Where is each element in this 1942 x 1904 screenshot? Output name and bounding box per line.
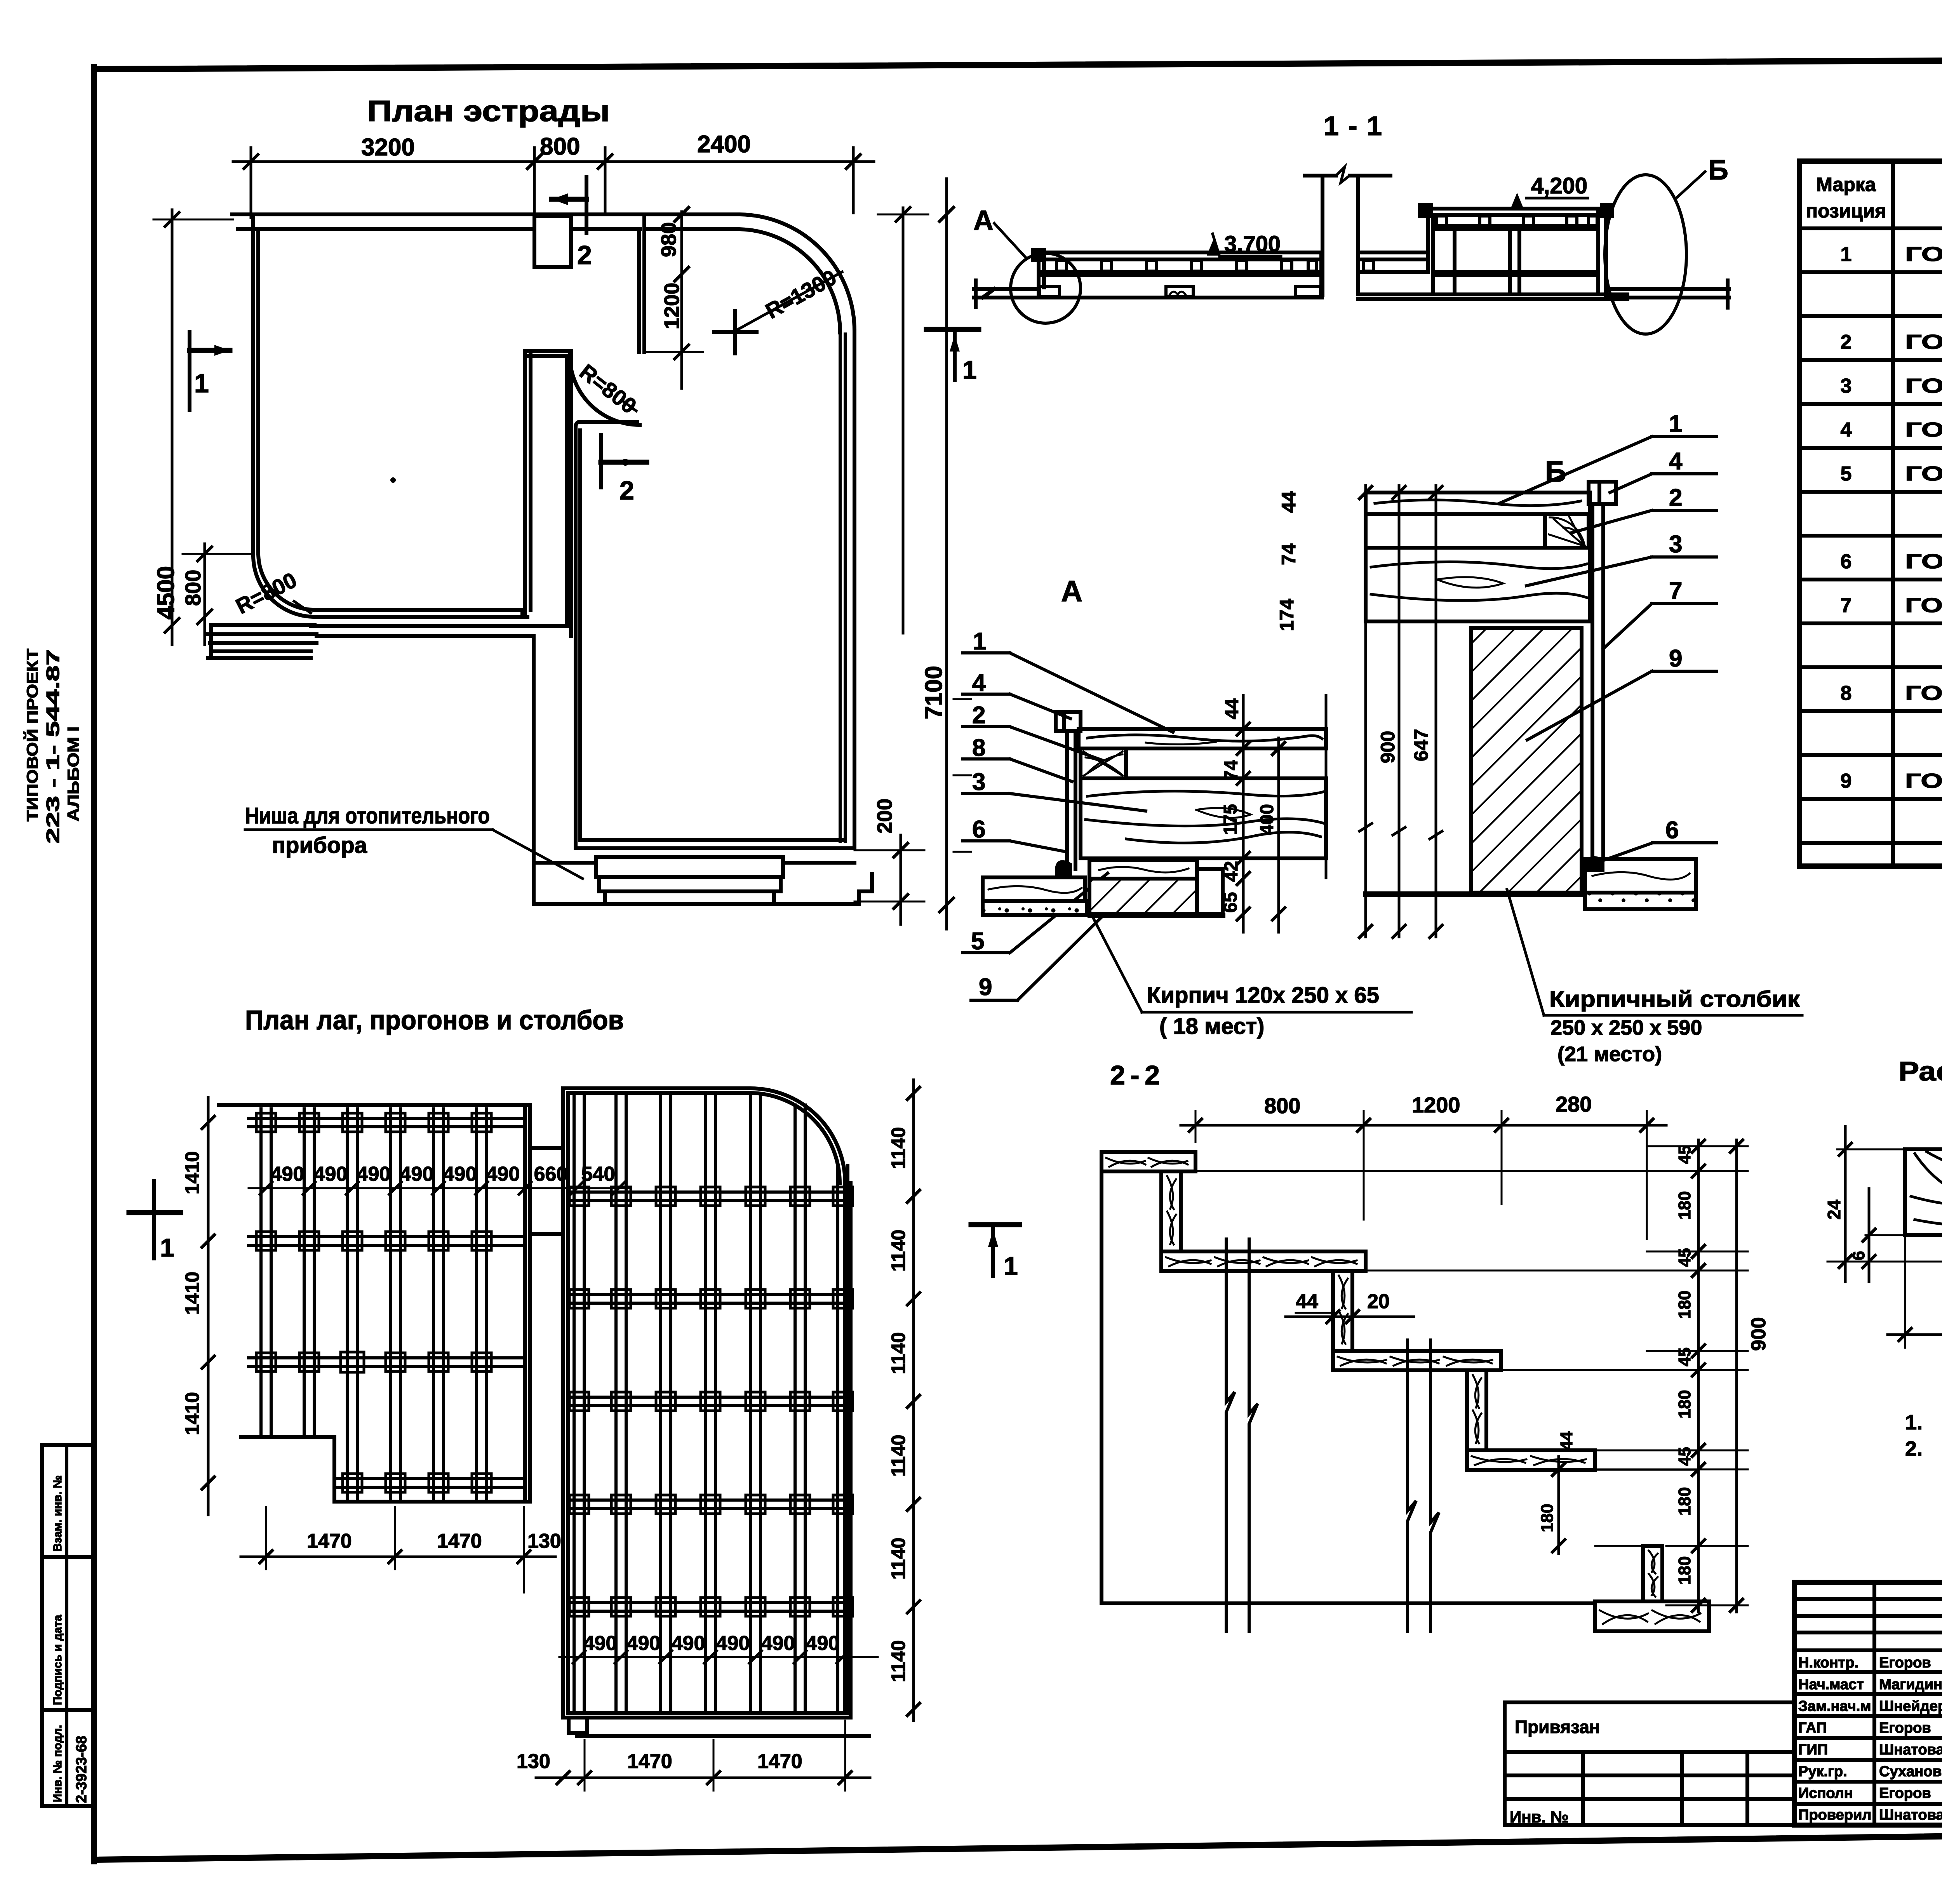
B girder 3	[1366, 548, 1590, 621]
svg-text:490: 490	[314, 1163, 348, 1185]
svg-text:490: 490	[486, 1163, 520, 1185]
svg-text:ГАП: ГАП	[1798, 1720, 1827, 1736]
vertical facing board 8	[1067, 731, 1075, 869]
svg-text:1470: 1470	[437, 1530, 482, 1552]
section flag 2 (bottom)	[601, 435, 647, 505]
pads at intersections	[256, 1113, 491, 1492]
svg-text:Шнатова: Шнатова	[1879, 1742, 1942, 1758]
B floor board 1	[1366, 493, 1590, 514]
dim 130/1470/1470 bottom of right grid	[536, 1777, 870, 1779]
detail circle A	[1011, 253, 1081, 323]
cap element 4	[1056, 712, 1081, 731]
svg-text:647: 647	[1410, 729, 1432, 761]
left platform deck	[1033, 250, 1321, 295]
stair treads and risers	[1102, 1152, 1195, 1171]
joist 2 end grain	[1081, 748, 1126, 778]
svg-text:5: 5	[1841, 463, 1852, 485]
svg-text:180: 180	[1675, 1556, 1694, 1585]
svg-text:2 - 2: 2 - 2	[1110, 1060, 1160, 1090]
svg-text:9: 9	[1669, 645, 1682, 672]
svg-text:ГОСТ 530-71: ГОСТ 530-71	[1905, 770, 1942, 792]
svg-text:Егоров: Егоров	[1879, 1655, 1931, 1671]
svg-text:Зам.нач.м: Зам.нач.м	[1798, 1698, 1871, 1714]
svg-text:900: 900	[1377, 731, 1399, 763]
niche right wall	[637, 229, 641, 352]
brick 9 hatched	[1089, 879, 1197, 914]
svg-text:Н.контр.: Н.контр.	[1798, 1655, 1858, 1671]
svg-text:8: 8	[972, 734, 985, 761]
Ниша label	[245, 803, 583, 879]
right grid outline	[563, 1088, 869, 1736]
bottom edge of left platform	[315, 615, 527, 619]
svg-text:800: 800	[540, 133, 580, 160]
svg-text:7: 7	[1669, 578, 1682, 604]
dim 980 / 1200 at niche	[644, 207, 703, 388]
svg-text:490: 490	[627, 1632, 661, 1655]
dim 800 (bottom-left radius)	[181, 544, 311, 645]
left grid joists	[261, 1109, 487, 1499]
section flag 2 (top)	[585, 177, 588, 233]
svg-text:1470: 1470	[307, 1530, 352, 1552]
svg-text:44: 44	[1557, 1431, 1576, 1450]
left stage edge	[251, 216, 255, 555]
svg-text:ГОСТ 10632-77: ГОСТ 10632-77	[1905, 682, 1942, 705]
svg-text:9: 9	[979, 974, 992, 1001]
air gap under floor	[1126, 776, 1326, 780]
svg-text:4: 4	[1669, 448, 1683, 475]
svg-text:Магидин: Магидин	[1879, 1676, 1942, 1693]
right grid girders	[568, 1192, 845, 1611]
ground right	[1358, 280, 1729, 308]
dim row 490 left grid	[249, 1187, 629, 1189]
svg-text:2.: 2.	[1905, 1437, 1923, 1460]
detail circle B	[1605, 175, 1686, 334]
svg-text:3200: 3200	[361, 134, 415, 161]
svg-text:44: 44	[1278, 491, 1300, 513]
svg-text:45: 45	[1675, 1248, 1694, 1267]
svg-text:1140: 1140	[887, 1640, 909, 1682]
svg-text:2-3923-68: 2-3923-68	[73, 1736, 90, 1803]
svg-text:9: 9	[1841, 770, 1852, 792]
floor boards left	[983, 877, 1087, 915]
svg-text:1.: 1.	[1905, 1411, 1923, 1434]
svg-text:490: 490	[672, 1632, 705, 1655]
section flag 1 lower	[926, 327, 979, 332]
svg-text:3.700: 3.700	[1224, 231, 1281, 257]
girder 3	[1081, 778, 1326, 858]
left grid outline	[219, 1105, 530, 1502]
svg-text:4500: 4500	[153, 566, 179, 620]
svg-text:7100: 7100	[921, 666, 947, 719]
plinth 6	[1055, 860, 1072, 879]
svg-text:8: 8	[1841, 682, 1852, 705]
right side dims	[1697, 1140, 1700, 1612]
svg-text:490: 490	[583, 1632, 617, 1655]
B callout labels right	[1665, 411, 1683, 844]
fillet arc R=800 to wing	[570, 355, 640, 425]
datum line left	[902, 208, 905, 633]
svg-text:прибора: прибора	[272, 833, 367, 858]
svg-text:ГОСТ 24454-80: ГОСТ 24454-80	[1905, 375, 1942, 397]
svg-text:4: 4	[1841, 419, 1852, 441]
joists row	[1056, 260, 1317, 271]
svg-text:24: 24	[1824, 1199, 1844, 1220]
svg-text:АЛЬБОМ I: АЛЬБОМ I	[64, 726, 82, 821]
corridor left edge down	[565, 356, 569, 626]
svg-text:Марка: Марка	[1816, 174, 1876, 195]
svg-text:Привязан: Привязан	[1515, 1717, 1600, 1737]
svg-text:280: 280	[1556, 1092, 1592, 1116]
svg-text:900: 900	[1747, 1317, 1770, 1351]
svg-text:1140: 1140	[887, 1538, 909, 1580]
top dim line 800/1200/280	[1181, 1124, 1666, 1127]
svg-text:3: 3	[1841, 375, 1852, 397]
svg-text:2: 2	[972, 702, 985, 729]
svg-text:А: А	[973, 205, 994, 236]
svg-text:Взам. инв. №: Взам. инв. №	[51, 1475, 64, 1552]
svg-text:Егоров: Егоров	[1879, 1785, 1931, 1801]
right edge of left platform	[523, 355, 527, 617]
svg-text:Инв. № подл.: Инв. № подл.	[51, 1725, 64, 1802]
svg-text:1: 1	[194, 369, 209, 398]
svg-text:800: 800	[181, 570, 205, 606]
svg-text:ГОСТ 24454-80: ГОСТ 24454-80	[1905, 243, 1942, 266]
right platform deck 4.200	[1420, 205, 1612, 294]
svg-text:ГОСТ 10632-77: ГОСТ 10632-77	[1905, 594, 1942, 617]
svg-text:А: А	[1061, 575, 1082, 608]
svg-text:Проверил: Проверил	[1798, 1807, 1871, 1823]
svg-text:490: 490	[761, 1632, 795, 1655]
svg-text:200: 200	[873, 799, 896, 834]
svg-text:1410: 1410	[181, 1392, 203, 1435]
svg-text:540: 540	[581, 1163, 615, 1185]
dim 1410 left	[207, 1097, 210, 1515]
svg-text:Шнатова: Шнатова	[1879, 1807, 1942, 1823]
svg-text:ГОСТ 24454-80: ГОСТ 24454-80	[1905, 331, 1942, 353]
svg-text:490: 490	[806, 1632, 840, 1655]
svg-text:Рук.гр.: Рук.гр.	[1798, 1763, 1847, 1780]
svg-text:1: 1	[962, 355, 977, 384]
svg-text:1140: 1140	[887, 1332, 909, 1374]
svg-text:180: 180	[1675, 1291, 1694, 1319]
svg-text:6: 6	[1849, 1251, 1868, 1260]
svg-text:План лаг, прогонов и столбов: План лаг, прогонов и столбов	[245, 1005, 624, 1035]
dims right of detail A	[1243, 695, 1326, 932]
svg-text:1200: 1200	[660, 283, 684, 329]
svg-text:1: 1	[1841, 243, 1852, 266]
left margin bottom box: инв table	[42, 1445, 94, 1806]
svg-text:Егоров: Егоров	[1879, 1720, 1931, 1736]
neck between grids	[530, 1148, 563, 1234]
svg-text:5: 5	[971, 928, 984, 955]
svg-text:1470: 1470	[627, 1750, 672, 1773]
svg-text:6: 6	[1841, 550, 1852, 573]
svg-text:1470: 1470	[757, 1750, 802, 1773]
svg-text:1: 1	[1004, 1251, 1018, 1280]
svg-text:1140: 1140	[887, 1435, 909, 1477]
B facing board 7	[1592, 504, 1603, 859]
svg-text:490: 490	[443, 1163, 477, 1185]
svg-text:180: 180	[1675, 1390, 1694, 1418]
svg-text:42: 42	[1221, 861, 1242, 882]
svg-text:2: 2	[1841, 331, 1852, 353]
wing interior bottom	[580, 838, 845, 842]
раскладка dims	[1865, 1234, 1905, 1236]
svg-text:223 - 1- 544.87: 223 - 1- 544.87	[43, 649, 63, 844]
svg-text:490: 490	[400, 1163, 434, 1185]
bottom wall outer with niche for heater	[532, 636, 536, 904]
svg-text:Суханова: Суханова	[1879, 1763, 1942, 1780]
svg-text:65: 65	[1220, 892, 1241, 913]
svg-text:(21 место): (21 место)	[1557, 1043, 1662, 1066]
steps bottom of wing	[596, 857, 783, 904]
svg-text:Раскладка: Раскладка	[1898, 1056, 1942, 1086]
svg-text:позиция: позиция	[1806, 200, 1886, 222]
B plinth 6 and floor right	[1585, 856, 1604, 872]
dim 4500 left	[153, 210, 233, 645]
B brick column 9	[1471, 628, 1582, 893]
svg-text:980: 980	[657, 222, 680, 257]
lower floor right of wall	[1359, 252, 1428, 272]
svg-text:6: 6	[1665, 817, 1679, 844]
svg-text:ГИП: ГИП	[1798, 1742, 1828, 1758]
break lines	[1226, 1239, 1439, 1631]
wing right edge	[853, 331, 856, 848]
svg-text:2: 2	[1669, 484, 1682, 511]
section flag 1 near joist plan	[129, 1210, 181, 1215]
B cap 4	[1589, 482, 1616, 504]
stair outline	[1100, 1171, 1103, 1603]
svg-text:180: 180	[1675, 1191, 1694, 1220]
dim row 490 right grid	[559, 1656, 878, 1658]
svg-text:4: 4	[972, 670, 986, 696]
pads under platform	[1039, 287, 1321, 297]
svg-text:1: 1	[160, 1233, 174, 1262]
svg-text:Б: Б	[1708, 155, 1728, 186]
svg-text:Ниша для отопительного: Ниша для отопительного	[245, 803, 490, 828]
svg-text:130: 130	[517, 1750, 550, 1773]
section flag 1 (left)	[190, 332, 230, 410]
left grid girders	[249, 1118, 525, 1487]
Привязан table	[1505, 1702, 1794, 1825]
B air gap	[1366, 546, 1545, 550]
svg-text:Шнейдерман: Шнейдерман	[1879, 1698, 1942, 1714]
B ground	[1363, 891, 1592, 897]
dim 44/20 at riser2	[1286, 1316, 1414, 1318]
header	[1806, 173, 1942, 222]
svg-text:Нач.маст: Нач.маст	[1798, 1676, 1864, 1693]
svg-text:3: 3	[1669, 531, 1682, 558]
svg-text:1410: 1410	[181, 1272, 203, 1315]
svg-text:1140: 1140	[887, 1127, 909, 1169]
svg-text:1: 1	[973, 628, 986, 655]
svg-text:2: 2	[619, 476, 634, 505]
svg-text:800: 800	[1264, 1093, 1300, 1118]
svg-text:44: 44	[1222, 698, 1242, 719]
svg-text:490: 490	[357, 1163, 391, 1185]
svg-text:Инв. №: Инв. №	[1510, 1808, 1569, 1826]
svg-text:490: 490	[271, 1163, 305, 1185]
svg-text:74: 74	[1221, 760, 1242, 781]
left margin stamp: типовой проект 223-1-544.87 альбом I	[23, 649, 82, 844]
svg-text:( 18 мест): ( 18 мест)	[1159, 1014, 1264, 1039]
svg-text:1410: 1410	[181, 1151, 203, 1194]
svg-text:400: 400	[1257, 804, 1277, 835]
svg-text:1140: 1140	[887, 1230, 909, 1272]
svg-text:250 х 250 х 590: 250 х 250 х 590	[1550, 1016, 1702, 1039]
svg-text:ГОСТ 24454-80: ГОСТ 24454-80	[1905, 463, 1942, 485]
rows	[1841, 243, 1942, 792]
ground left	[974, 280, 1322, 307]
niche bottom ledge	[580, 420, 637, 424]
svg-text:Исполн: Исполн	[1798, 1785, 1853, 1801]
svg-text:20: 20	[1367, 1290, 1390, 1313]
R=1300 label and center	[714, 265, 842, 353]
building corner / wing top with R=1300	[644, 214, 854, 331]
building top wall	[232, 214, 872, 904]
svg-text:130: 130	[527, 1530, 561, 1552]
svg-text:Кирпич 120х 250 х 65: Кирпич 120х 250 х 65	[1147, 983, 1379, 1008]
pad 5 over brick	[1089, 860, 1197, 879]
svg-text:7: 7	[1841, 594, 1852, 617]
B joist 2 end grain fan	[1545, 514, 1589, 548]
svg-text:ГОСТ 24454-80: ГОСТ 24454-80	[1905, 419, 1942, 441]
svg-text:1200: 1200	[1412, 1093, 1460, 1117]
svg-text:490: 490	[716, 1632, 750, 1655]
svg-text:ТИПОВОЙ ПРОЕКТ: ТИПОВОЙ ПРОЕКТ	[23, 649, 41, 821]
svg-text:6: 6	[972, 816, 985, 843]
jog	[525, 349, 570, 353]
svg-text:180: 180	[1675, 1487, 1694, 1516]
steps bottom-left	[208, 625, 317, 658]
svg-text:План эстрады: План эстрады	[367, 95, 610, 128]
svg-text:2: 2	[577, 240, 592, 270]
lower wall band of left part	[311, 624, 567, 628]
svg-text:74: 74	[1278, 543, 1300, 565]
svg-text:45: 45	[1675, 1347, 1694, 1366]
wing left edge	[574, 427, 578, 845]
dim lines left of B	[1359, 486, 1442, 937]
svg-text:45: 45	[1675, 1447, 1694, 1466]
svg-text:Кирпичный столбик: Кирпичный столбик	[1549, 987, 1800, 1012]
svg-text:2400: 2400	[697, 131, 751, 158]
dim 7100 right	[921, 179, 971, 929]
right grid joists	[574, 1093, 848, 1713]
svg-text:174: 174	[1276, 599, 1298, 631]
svg-text:45: 45	[1675, 1145, 1694, 1164]
svg-text:44: 44	[1296, 1290, 1318, 1313]
bottom-left rounded corner R=800	[253, 555, 315, 617]
svg-text:1 - 1: 1 - 1	[1324, 111, 1382, 141]
svg-text:1: 1	[1669, 411, 1682, 437]
floor board 1	[1079, 729, 1326, 748]
svg-text:ГОСТ 24454-80: ГОСТ 24454-80	[1905, 550, 1942, 573]
svg-text:3: 3	[972, 769, 985, 795]
dim 1470 bottom of left grid	[241, 1556, 555, 1558]
pier	[534, 216, 571, 267]
svg-text:180: 180	[1538, 1504, 1557, 1532]
dim 200 right bottom	[854, 799, 924, 924]
dim 1140 right	[912, 1080, 915, 1721]
top dimension line	[233, 160, 874, 163]
svg-text:4,200: 4,200	[1531, 173, 1587, 198]
svg-text:Подпись и дата: Подпись и дата	[51, 1615, 64, 1705]
svg-text:175: 175	[1220, 804, 1241, 835]
wall axis break	[1305, 167, 1390, 295]
